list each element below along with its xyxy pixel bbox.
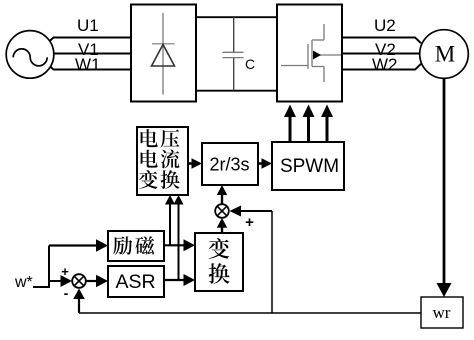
svg-text:W1: W1 [75,55,101,74]
svg-text:-: - [64,285,69,301]
svg-text:U2: U2 [374,16,396,35]
svg-text:U1: U1 [77,16,99,35]
svg-text:C: C [245,56,255,72]
svg-text:M: M [435,42,455,67]
svg-text:w*: w* [14,274,33,291]
svg-text:+: + [245,214,254,231]
svg-text:+: + [61,264,69,279]
svg-text:2r/3s: 2r/3s [209,155,249,175]
svg-text:wr: wr [433,303,451,322]
svg-text:ASR: ASR [115,271,155,293]
svg-text:W2: W2 [372,55,398,74]
svg-text:SPWM: SPWM [280,156,339,177]
